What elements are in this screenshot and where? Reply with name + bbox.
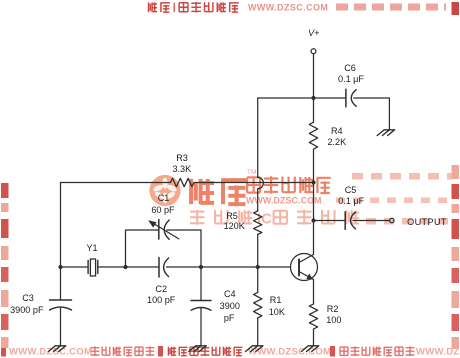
wire: emitter down	[313, 280, 315, 305]
node C1C4-right	[199, 265, 203, 269]
watermark slogan row	[190, 210, 205, 225]
label R2	[303, 305, 363, 314]
wire: C6 to ground	[354, 98, 390, 130]
wire: divider column	[257, 98, 259, 177]
label 100 pF	[131, 296, 191, 305]
capacitor C2	[159, 258, 169, 278]
wire: hop to R5	[257, 189, 259, 211]
label R4	[307, 127, 367, 136]
resistor R1	[254, 292, 262, 318]
watermark top band	[149, 2, 158, 12]
label R3	[152, 154, 212, 163]
label R1	[246, 296, 306, 305]
label 0.1 μF	[321, 75, 381, 84]
label C4	[200, 290, 260, 299]
ground C4	[189, 346, 206, 352]
wire: C5 to terminal	[353, 220, 389, 222]
wire: feedback row left segment	[61, 182, 171, 184]
resistor R5	[254, 211, 262, 234]
capacitor C5	[345, 212, 355, 230]
ground C3	[48, 346, 65, 352]
watermark dash row 3	[366, 218, 376, 225]
wire: to crystal	[61, 266, 89, 268]
label pF	[199, 314, 259, 323]
wire: feedback row right segment	[194, 182, 314, 184]
node C1C2-left	[123, 265, 127, 269]
node output tap	[311, 218, 315, 222]
node V+ junction	[311, 96, 315, 100]
wire: R4 to collector	[313, 149, 315, 220]
label R5	[202, 212, 262, 221]
label 10K	[247, 308, 307, 317]
wire: V+ rail	[258, 97, 346, 99]
watermark left edge dashes	[1, 183, 9, 198]
watermark text dianzishichangwang	[247, 177, 260, 192]
watermark text weiku	[191, 179, 214, 204]
label 3900	[200, 302, 260, 311]
label C2	[131, 285, 191, 294]
label OUTPUT	[397, 218, 457, 227]
resistor R4	[309, 122, 317, 149]
wire: C3 to ground	[60, 308, 62, 346]
wire: C1 loop right leg	[167, 230, 201, 267]
watermark dash row 1	[352, 173, 363, 180]
node crystal-left	[58, 265, 62, 269]
resistor R3	[171, 178, 195, 186]
wire: C4 to ground	[200, 308, 202, 346]
label C1	[134, 194, 194, 203]
label 120K	[204, 222, 264, 231]
ground R1	[246, 346, 263, 352]
ground C6	[377, 130, 394, 136]
watermark bottom band	[1, 346, 6, 357]
capacitor C3	[50, 300, 72, 310]
resistor R2	[309, 304, 317, 329]
label C3	[0, 294, 58, 303]
wire: base to R1	[257, 267, 259, 292]
node base-divider	[256, 265, 260, 269]
label 100	[304, 316, 364, 325]
wire: V+ down	[313, 54, 315, 123]
watermark logo disc	[149, 175, 180, 206]
wire: R2 to ground	[313, 329, 315, 346]
crystal Y1	[88, 259, 98, 276]
terminal V+	[311, 49, 316, 54]
capacitor C1 variable	[148, 220, 179, 240]
wire: R1 to ground	[257, 318, 259, 346]
wire: output row	[314, 220, 346, 222]
watermark dash row 2	[336, 198, 345, 204]
label 0.1 μF	[321, 197, 381, 206]
ground R2	[301, 346, 318, 352]
wire: collector lead	[313, 221, 315, 255]
label 3.3K	[152, 165, 212, 174]
wire: R5 to base	[257, 234, 259, 267]
wire: crystal to C2	[98, 266, 159, 268]
wire: left column	[60, 183, 62, 301]
wire: C4 column	[200, 267, 202, 301]
label C6	[320, 64, 380, 73]
label C5	[321, 186, 381, 195]
label 3900 pF	[0, 306, 57, 315]
label 60 pF	[133, 206, 193, 215]
capacitor C6	[346, 89, 356, 107]
watermark right edge dashes	[452, 2, 460, 15]
terminal OUTPUT	[390, 218, 394, 222]
capacitor C4	[191, 301, 211, 311]
wire hop	[258, 177, 264, 188]
node feedback junction	[311, 180, 315, 184]
label V+	[284, 29, 344, 38]
label Y1	[62, 244, 122, 253]
transistor Q1	[291, 254, 318, 281]
wire: C2 to base	[167, 266, 291, 268]
label 2.2K	[307, 138, 367, 147]
wire: C1 loop left leg	[126, 230, 159, 267]
